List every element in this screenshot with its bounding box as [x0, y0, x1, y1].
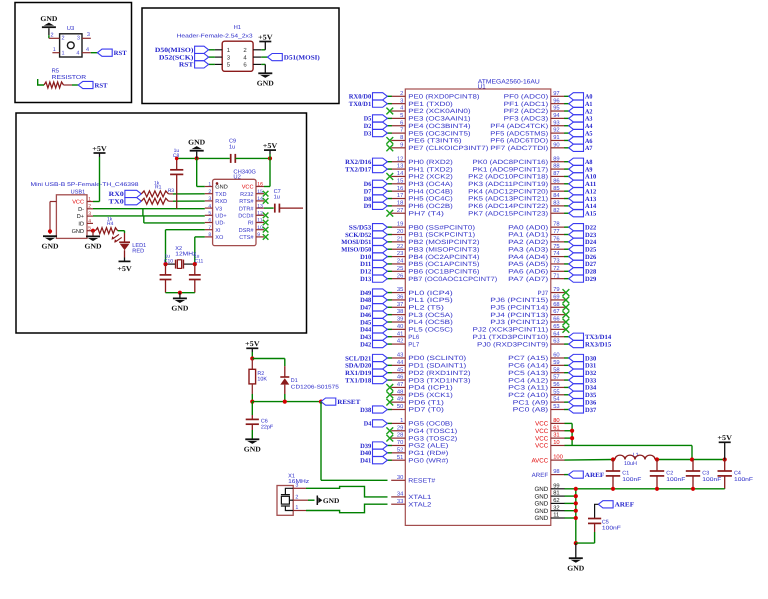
U1 pin 8 PE6 — [391, 134, 461, 145]
wire H1 pin4 — [261, 56, 267, 58]
net flag D3 — [364, 130, 388, 138]
svg-text:16: 16 — [257, 182, 263, 188]
crystal X2 — [166, 260, 195, 269]
net flag A14 — [569, 202, 597, 210]
net flag A4 — [569, 122, 593, 130]
net flag A8 — [569, 158, 593, 166]
svg-text:D31: D31 — [585, 363, 596, 370]
svg-text:SCL/D21: SCL/D21 — [345, 355, 371, 362]
wire pin 94 — [564, 117, 569, 119]
svg-text:PG1 (RD#): PG1 (RD#) — [408, 450, 448, 457]
wire reset row — [252, 401, 321, 403]
svg-text:A12: A12 — [585, 188, 596, 195]
svg-text:95: 95 — [553, 105, 559, 112]
ground — [40, 15, 57, 35]
svg-text:+5V: +5V — [92, 145, 107, 153]
svg-text:33: 33 — [397, 498, 403, 505]
svg-text:14: 14 — [257, 196, 263, 202]
net flag RX0/D0 — [349, 93, 388, 101]
svg-text:D46: D46 — [360, 312, 372, 319]
net flag A2 — [569, 107, 593, 115]
svg-text:TX3/D14: TX3/D14 — [585, 334, 612, 341]
svg-text:55: 55 — [553, 389, 559, 395]
wire pin 35 — [387, 292, 392, 294]
frame box 3 (USB / CH340G section) — [16, 113, 307, 333]
svg-text:UD-: UD- — [215, 221, 225, 227]
U1 pin 35 PL0 — [391, 286, 453, 297]
svg-text:46: 46 — [397, 374, 403, 381]
svg-text:35: 35 — [397, 286, 403, 293]
svg-text:2: 2 — [295, 495, 298, 501]
svg-text:5: 5 — [208, 211, 211, 217]
net flag SCL/D21 — [345, 354, 387, 362]
wire R5 to RST — [72, 84, 78, 86]
wire pin 60 — [564, 357, 569, 359]
net flag A10 — [569, 173, 597, 181]
U1 pin 5 PE3 — [391, 113, 470, 123]
svg-text:PA6 (AD6): PA6 (AD6) — [508, 269, 548, 276]
wire AREF pin — [564, 474, 569, 476]
no-connect U1 pin 29 — [386, 427, 393, 434]
svg-text:1: 1 — [53, 47, 56, 53]
svg-text:RED: RED — [132, 249, 144, 255]
svg-text:2: 2 — [400, 90, 403, 97]
svg-text:PB6 (OC1BPCINT6): PB6 (OC1BPCINT6) — [408, 269, 479, 276]
svg-text:32: 32 — [553, 504, 559, 511]
capacitor C9 labels — [229, 139, 236, 151]
svg-text:45: 45 — [397, 367, 403, 373]
svg-text:72: 72 — [553, 265, 559, 272]
svg-text:GND: GND — [215, 185, 227, 191]
U1 pin 21 PB2 — [391, 235, 479, 246]
svg-text:PD5 (XCK1): PD5 (XCK1) — [408, 392, 453, 399]
U1 pin 60 PC7 — [508, 352, 565, 363]
svg-text:24: 24 — [397, 258, 404, 265]
net flag AREF (C5) — [598, 501, 634, 509]
net flag D10 — [360, 253, 387, 261]
net flag A9 — [569, 165, 593, 173]
svg-text:CD1206-S01575: CD1206-S01575 — [291, 385, 339, 391]
svg-text:3: 3 — [77, 36, 80, 42]
svg-text:MISO/D50: MISO/D50 — [341, 247, 371, 254]
svg-text:85: 85 — [553, 185, 559, 192]
svg-text:64: 64 — [553, 330, 560, 337]
svg-text:D27: D27 — [585, 261, 597, 268]
svg-text:PK5 (ADC13PCINT21): PK5 (ADC13PCINT21) — [468, 196, 548, 203]
svg-text:VCC: VCC — [535, 428, 549, 435]
svg-text:GND: GND — [323, 497, 340, 505]
svg-text:PD0 (SCLINT0): PD0 (SCLINT0) — [408, 355, 466, 362]
svg-text:29: 29 — [397, 424, 403, 431]
net flag A3 — [569, 115, 593, 123]
capacitor C11 — [189, 264, 201, 279]
capacitor C4 labels — [734, 471, 754, 483]
svg-text:1u: 1u — [274, 195, 280, 201]
svg-text:PC4 (A12): PC4 (A12) — [508, 377, 548, 384]
svg-text:37: 37 — [397, 301, 403, 308]
U1 pin 89 PK0 — [473, 155, 565, 166]
net flag D37 — [569, 406, 597, 414]
diode D1 labels — [291, 378, 339, 391]
capacitor C4 — [718, 460, 732, 489]
svg-text:AREF: AREF — [615, 502, 635, 509]
capacitor C5 — [576, 519, 601, 544]
svg-text:PA5 (AD5): PA5 (AD5) — [508, 261, 548, 268]
svg-text:43: 43 — [397, 352, 403, 359]
svg-text:19: 19 — [397, 221, 403, 228]
svg-text:TX1/D18: TX1/D18 — [345, 377, 372, 384]
svg-text:C4: C4 — [734, 471, 741, 477]
wire pin 88 — [564, 168, 569, 170]
wire X1 pin2 gnd — [308, 496, 339, 506]
no-connect U1 pin 28 — [386, 435, 393, 442]
U1 pin 70 PG2 — [391, 439, 448, 450]
U1 pin 73 PA5 — [508, 258, 565, 269]
wire gnd to U3 pin2 — [48, 35, 50, 38]
svg-text:A13: A13 — [585, 196, 597, 203]
U1 pin 65 PJ2 — [473, 323, 565, 334]
wire XO to crystal — [195, 237, 205, 264]
junction USB GND pin — [91, 229, 95, 233]
svg-text:15: 15 — [397, 178, 403, 184]
svg-text:RX0/D0: RX0/D0 — [349, 94, 372, 101]
svg-text:+5V: +5V — [717, 434, 732, 442]
U1 pin 47 PD4 — [391, 382, 453, 392]
svg-text:2: 2 — [50, 33, 53, 39]
svg-text:30: 30 — [397, 474, 403, 481]
net flag D22 — [569, 224, 597, 232]
svg-text:48: 48 — [397, 388, 403, 395]
ground (H1) — [257, 72, 274, 87]
svg-text:GND: GND — [72, 229, 84, 235]
svg-text:Mini USB-B 5P-Female-TH_C46398: Mini USB-B 5P-Female-TH_C46398 — [31, 182, 139, 188]
capacitor C7 — [275, 204, 280, 213]
svg-text:+5V: +5V — [263, 142, 278, 150]
svg-text:PC5 (A13): PC5 (A13) — [508, 370, 548, 377]
U1 pin 61 VCC — [535, 424, 565, 435]
wire pin 83 — [564, 205, 569, 207]
wire C9 to +5V — [235, 157, 270, 159]
svg-text:R4: R4 — [107, 221, 114, 227]
svg-text:68: 68 — [553, 301, 559, 308]
svg-text:2: 2 — [62, 36, 65, 42]
wire pin 44 — [387, 364, 392, 366]
net flag D5 — [364, 115, 388, 123]
capacitor C10 — [160, 264, 172, 279]
svg-text:9: 9 — [400, 141, 403, 148]
net flag D28 — [569, 268, 597, 276]
svg-text:10K: 10K — [257, 376, 267, 382]
U1 pin 84 PK5 — [468, 192, 565, 203]
svg-text:PK2 (ADC10PCINT18): PK2 (ADC10PCINT18) — [468, 174, 548, 181]
svg-text:90: 90 — [553, 141, 559, 148]
svg-text:PF6 (ADC6TDO): PF6 (ADC6TDO) — [490, 138, 548, 145]
svg-text:A11: A11 — [585, 181, 596, 188]
U1 pin 79 PJ7 — [538, 286, 565, 297]
net flag A6 — [569, 137, 593, 145]
no-connect CH340 pin 9 — [263, 234, 269, 240]
svg-text:D39: D39 — [360, 443, 372, 450]
net flag AREF (pin98) — [569, 471, 605, 479]
net flag D52(SCK) — [159, 54, 209, 62]
capacitor C8 labels — [173, 148, 180, 159]
svg-text:PJ6 (PCINT15): PJ6 (PCINT15) — [490, 297, 548, 304]
svg-text:D49: D49 — [360, 290, 372, 297]
svg-text:PE7 (CLKOICP3INT7): PE7 (CLKOICP3INT7) — [408, 145, 488, 152]
ground (right) — [567, 543, 584, 572]
wire GND bus — [565, 489, 576, 543]
junction reset net — [319, 400, 323, 404]
net flag D30 — [569, 354, 597, 362]
svg-text:11: 11 — [553, 513, 559, 519]
capacitor C8 — [170, 158, 183, 174]
U1 pin 55 PC2 — [508, 389, 565, 399]
no-connect CH340 pin 14 — [263, 198, 269, 204]
wire pin 21 — [387, 241, 392, 243]
svg-text:D47: D47 — [360, 305, 372, 312]
wire pin 75 — [564, 248, 569, 250]
svg-text:70: 70 — [397, 439, 403, 446]
wire XI to crystal — [166, 230, 205, 264]
svg-text:RESISTOR: RESISTOR — [52, 74, 87, 81]
svg-text:81: 81 — [553, 490, 559, 497]
LED LED1 — [112, 234, 147, 254]
wire pin 85 — [564, 190, 569, 192]
svg-text:PL5 (OC5C): PL5 (OC5C) — [408, 327, 453, 334]
svg-text:100nF: 100nF — [622, 477, 642, 483]
wire DTR to C7 — [264, 207, 274, 209]
U1 pin 38 PL3 — [391, 308, 453, 319]
svg-text:PL3 (OC5A): PL3 (OC5A) — [408, 312, 453, 319]
U1 pin 39 PL4 — [391, 316, 453, 327]
capacitor C3 — [686, 460, 700, 489]
wire GND rail — [565, 488, 725, 490]
svg-text:PG5 (OC0B): PG5 (OC0B) — [408, 421, 453, 428]
svg-text:PC0 (A8): PC0 (A8) — [513, 407, 549, 414]
power +5V (USB) — [92, 145, 107, 153]
net flag D23 — [569, 231, 597, 239]
net flag RX2/D16 — [345, 158, 387, 166]
no-connect U1 pin 66 — [563, 319, 570, 326]
svg-text:71: 71 — [553, 273, 559, 279]
svg-text:TXD: TXD — [215, 192, 226, 198]
svg-text:PD3 (TXD1INT3): PD3 (TXD1INT3) — [408, 377, 470, 384]
svg-text:10: 10 — [553, 439, 559, 446]
net flag D39 — [360, 442, 387, 450]
wire H1 pin2 to +5V — [261, 42, 265, 50]
svg-text:PG4 (TOSC1): PG4 (TOSC1) — [408, 428, 457, 435]
U1 pin 72 PA6 — [508, 265, 565, 276]
no-connect U1 pin 8 — [386, 137, 393, 144]
wire +5V rail top — [657, 459, 725, 461]
svg-text:36: 36 — [397, 294, 403, 301]
resistor R2 — [249, 359, 256, 402]
no-connect U1 pin 65 — [563, 326, 570, 333]
svg-text:PH7 (T4): PH7 (T4) — [408, 210, 444, 217]
wire AVCC — [565, 459, 614, 462]
wire USB gnd stem — [92, 231, 94, 236]
svg-text:59: 59 — [553, 359, 559, 366]
svg-text:PB0 (SS#PCINT0): PB0 (SS#PCINT0) — [408, 224, 475, 231]
svg-text:PJ0 (RXD3PCINT9): PJ0 (RXD3PCINT9) — [477, 341, 548, 348]
wire pin 74 — [564, 256, 569, 258]
svg-text:D12: D12 — [360, 269, 371, 276]
wire U3 pin4 to RST — [91, 52, 98, 54]
junction VCC 31 — [570, 436, 574, 440]
junction GND 32 — [574, 509, 578, 513]
net flag D50(MISO) — [155, 46, 209, 54]
wire pin 26 — [387, 278, 392, 280]
U1 pin 81 GND — [534, 490, 564, 501]
junction VCC 61 — [570, 429, 574, 433]
wire pin 20 — [387, 234, 392, 236]
junction GND 11 — [574, 516, 578, 520]
svg-text:57: 57 — [553, 375, 559, 381]
svg-text:D5: D5 — [364, 116, 372, 123]
svg-text:56: 56 — [553, 381, 559, 388]
resistor R5 — [44, 82, 72, 88]
U1 pin 99 GND — [534, 482, 564, 493]
svg-text:84: 84 — [553, 192, 560, 199]
no-connect U1 pin 4 — [386, 108, 393, 115]
svg-text:TX0/D1: TX0/D1 — [349, 101, 372, 108]
svg-text:91: 91 — [553, 134, 559, 141]
svg-text:H1: H1 — [234, 25, 241, 31]
svg-text:100nF: 100nF — [666, 477, 686, 483]
svg-text:98: 98 — [553, 468, 559, 475]
net flag A15 — [569, 210, 597, 218]
resistor R4 — [95, 228, 117, 234]
svg-text:+5V: +5V — [258, 33, 273, 41]
svg-text:XO: XO — [215, 235, 224, 241]
U1 pin 57 PC4 — [508, 375, 565, 385]
svg-text:PF5 (ADC5TMS): PF5 (ADC5TMS) — [490, 130, 548, 137]
wire pin 90 — [564, 147, 569, 149]
svg-text:21: 21 — [397, 235, 403, 242]
net flag SS/D53 — [349, 224, 388, 232]
svg-text:1: 1 — [62, 51, 65, 57]
U1 pin 11 GND — [534, 513, 564, 523]
U1 pin 37 PL2 — [391, 301, 444, 312]
U1 pin 98 AREF — [532, 468, 565, 479]
U1 pin 78 PA0 — [508, 221, 565, 232]
wire R4 to LED1 — [118, 231, 125, 242]
no-connect CH340 pin 15 — [263, 191, 269, 197]
svg-text:GND: GND — [534, 493, 548, 500]
U1 pin 14 PH2 — [391, 171, 453, 181]
U1 pin 71 PA7 — [508, 273, 565, 283]
svg-text:100: 100 — [553, 454, 563, 461]
net flag D35 — [569, 391, 597, 399]
svg-text:96: 96 — [553, 97, 559, 104]
U1 pin 49 PD6 — [391, 396, 444, 407]
wire C10 C11 gnd — [166, 280, 195, 293]
svg-text:D13: D13 — [360, 276, 372, 283]
no-connect U1 pin 69 — [563, 297, 570, 304]
USB connector title — [31, 182, 139, 188]
svg-text:GND: GND — [534, 486, 548, 493]
net flag RST (R5) — [78, 81, 108, 89]
net flag D8 — [364, 195, 388, 203]
svg-text:U3: U3 — [67, 25, 74, 32]
U1 pin 34 XTAL1 — [391, 491, 432, 502]
svg-text:R1: R1 — [155, 184, 162, 190]
U1 pin 51 PG0 — [391, 455, 448, 465]
junction C1 bottom — [611, 487, 615, 491]
wire R5 left — [38, 79, 44, 85]
U1 pin 9 PE7 — [391, 141, 488, 152]
svg-text:PH1 (TXD2): PH1 (TXD2) — [408, 166, 453, 173]
resistor R1 — [141, 198, 168, 204]
svg-text:PF3 (ADC3): PF3 (ADC3) — [504, 116, 549, 123]
no-connect U1 pin 68 — [563, 304, 570, 311]
power +5V (reset) — [245, 340, 260, 358]
svg-text:A3: A3 — [585, 116, 593, 123]
ground (CH340) — [188, 139, 205, 159]
U1 pin 29 PG4 — [391, 424, 457, 435]
svg-text:14: 14 — [397, 171, 404, 177]
svg-text:D-: D- — [78, 207, 84, 213]
net flag D11 — [360, 260, 387, 268]
wire pin 64 — [564, 336, 569, 338]
svg-text:1: 1 — [400, 418, 403, 424]
no-connect CH340 pin 10 — [263, 227, 269, 233]
wire pin 12 — [387, 161, 392, 163]
svg-text:PG3 (TOSC2): PG3 (TOSC2) — [408, 435, 457, 442]
svg-text:31: 31 — [553, 432, 559, 439]
svg-text:97: 97 — [553, 90, 559, 97]
svg-text:D52(SCK): D52(SCK) — [159, 54, 194, 61]
wire pin 54 — [564, 401, 569, 403]
inductor L1 — [613, 455, 657, 459]
svg-text:DSR#: DSR# — [239, 228, 255, 234]
net flag A0 — [569, 93, 593, 101]
svg-text:25: 25 — [397, 265, 403, 272]
junction L1 left — [611, 457, 615, 461]
U1 pin 12 PH0 — [391, 155, 453, 166]
capacitor C5 labels — [602, 519, 622, 531]
wire pin 55 — [564, 394, 569, 396]
svg-text:PB7 (OC0AOC1CPCINT7): PB7 (OC0AOC1CPCINT7) — [408, 276, 497, 283]
U1 pin 86 PK3 — [468, 177, 565, 188]
net flag D4 — [364, 420, 388, 428]
wire pin 1 — [387, 422, 392, 424]
net flag D43 — [360, 333, 387, 341]
svg-text:PC6 (A14): PC6 (A14) — [508, 363, 548, 370]
svg-text:PD2 (RXD1INT2): PD2 (RXD1INT2) — [408, 370, 470, 377]
svg-text:Header-Female-2.54_2x3: Header-Female-2.54_2x3 — [177, 34, 253, 40]
svg-text:PD4 (ICP1): PD4 (ICP1) — [408, 385, 453, 392]
capacitor C6 — [246, 402, 259, 425]
net flag D7 — [364, 188, 388, 196]
junction C3 bottom — [691, 487, 695, 491]
U1 pin 20 PB1 — [391, 228, 475, 239]
no-connect U1 pin 79 — [563, 289, 570, 296]
wire pin 52 — [387, 452, 392, 454]
svg-text:RX0: RX0 — [109, 191, 124, 198]
crystal X1 labels — [288, 474, 309, 486]
wire pin 82 — [564, 212, 569, 214]
wire pin 50 — [387, 409, 392, 411]
svg-text:94: 94 — [553, 112, 560, 119]
svg-text:A0: A0 — [585, 94, 593, 101]
net flag TX3/D14 — [569, 333, 612, 341]
wire pin 93 — [564, 125, 569, 127]
svg-text:D10: D10 — [360, 254, 371, 261]
resistor R5 labels — [52, 68, 87, 81]
svg-text:V3: V3 — [215, 206, 222, 212]
net flag D31 — [569, 362, 597, 370]
